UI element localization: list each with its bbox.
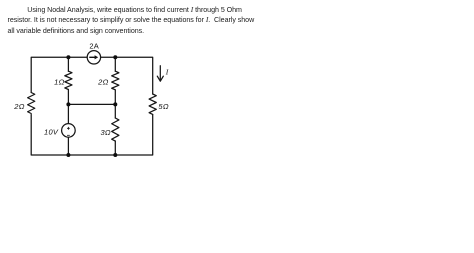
svg-text:2A: 2A — [89, 42, 99, 51]
svg-text:3Ω: 3Ω — [100, 128, 110, 137]
svg-text:2Ω: 2Ω — [13, 102, 24, 111]
svg-text:2Ω: 2Ω — [97, 78, 108, 87]
svg-text:I: I — [165, 67, 169, 76]
svg-text:1Ω: 1Ω — [54, 78, 64, 87]
svg-text:10V: 10V — [44, 128, 59, 137]
svg-text:5Ω: 5Ω — [158, 102, 168, 111]
